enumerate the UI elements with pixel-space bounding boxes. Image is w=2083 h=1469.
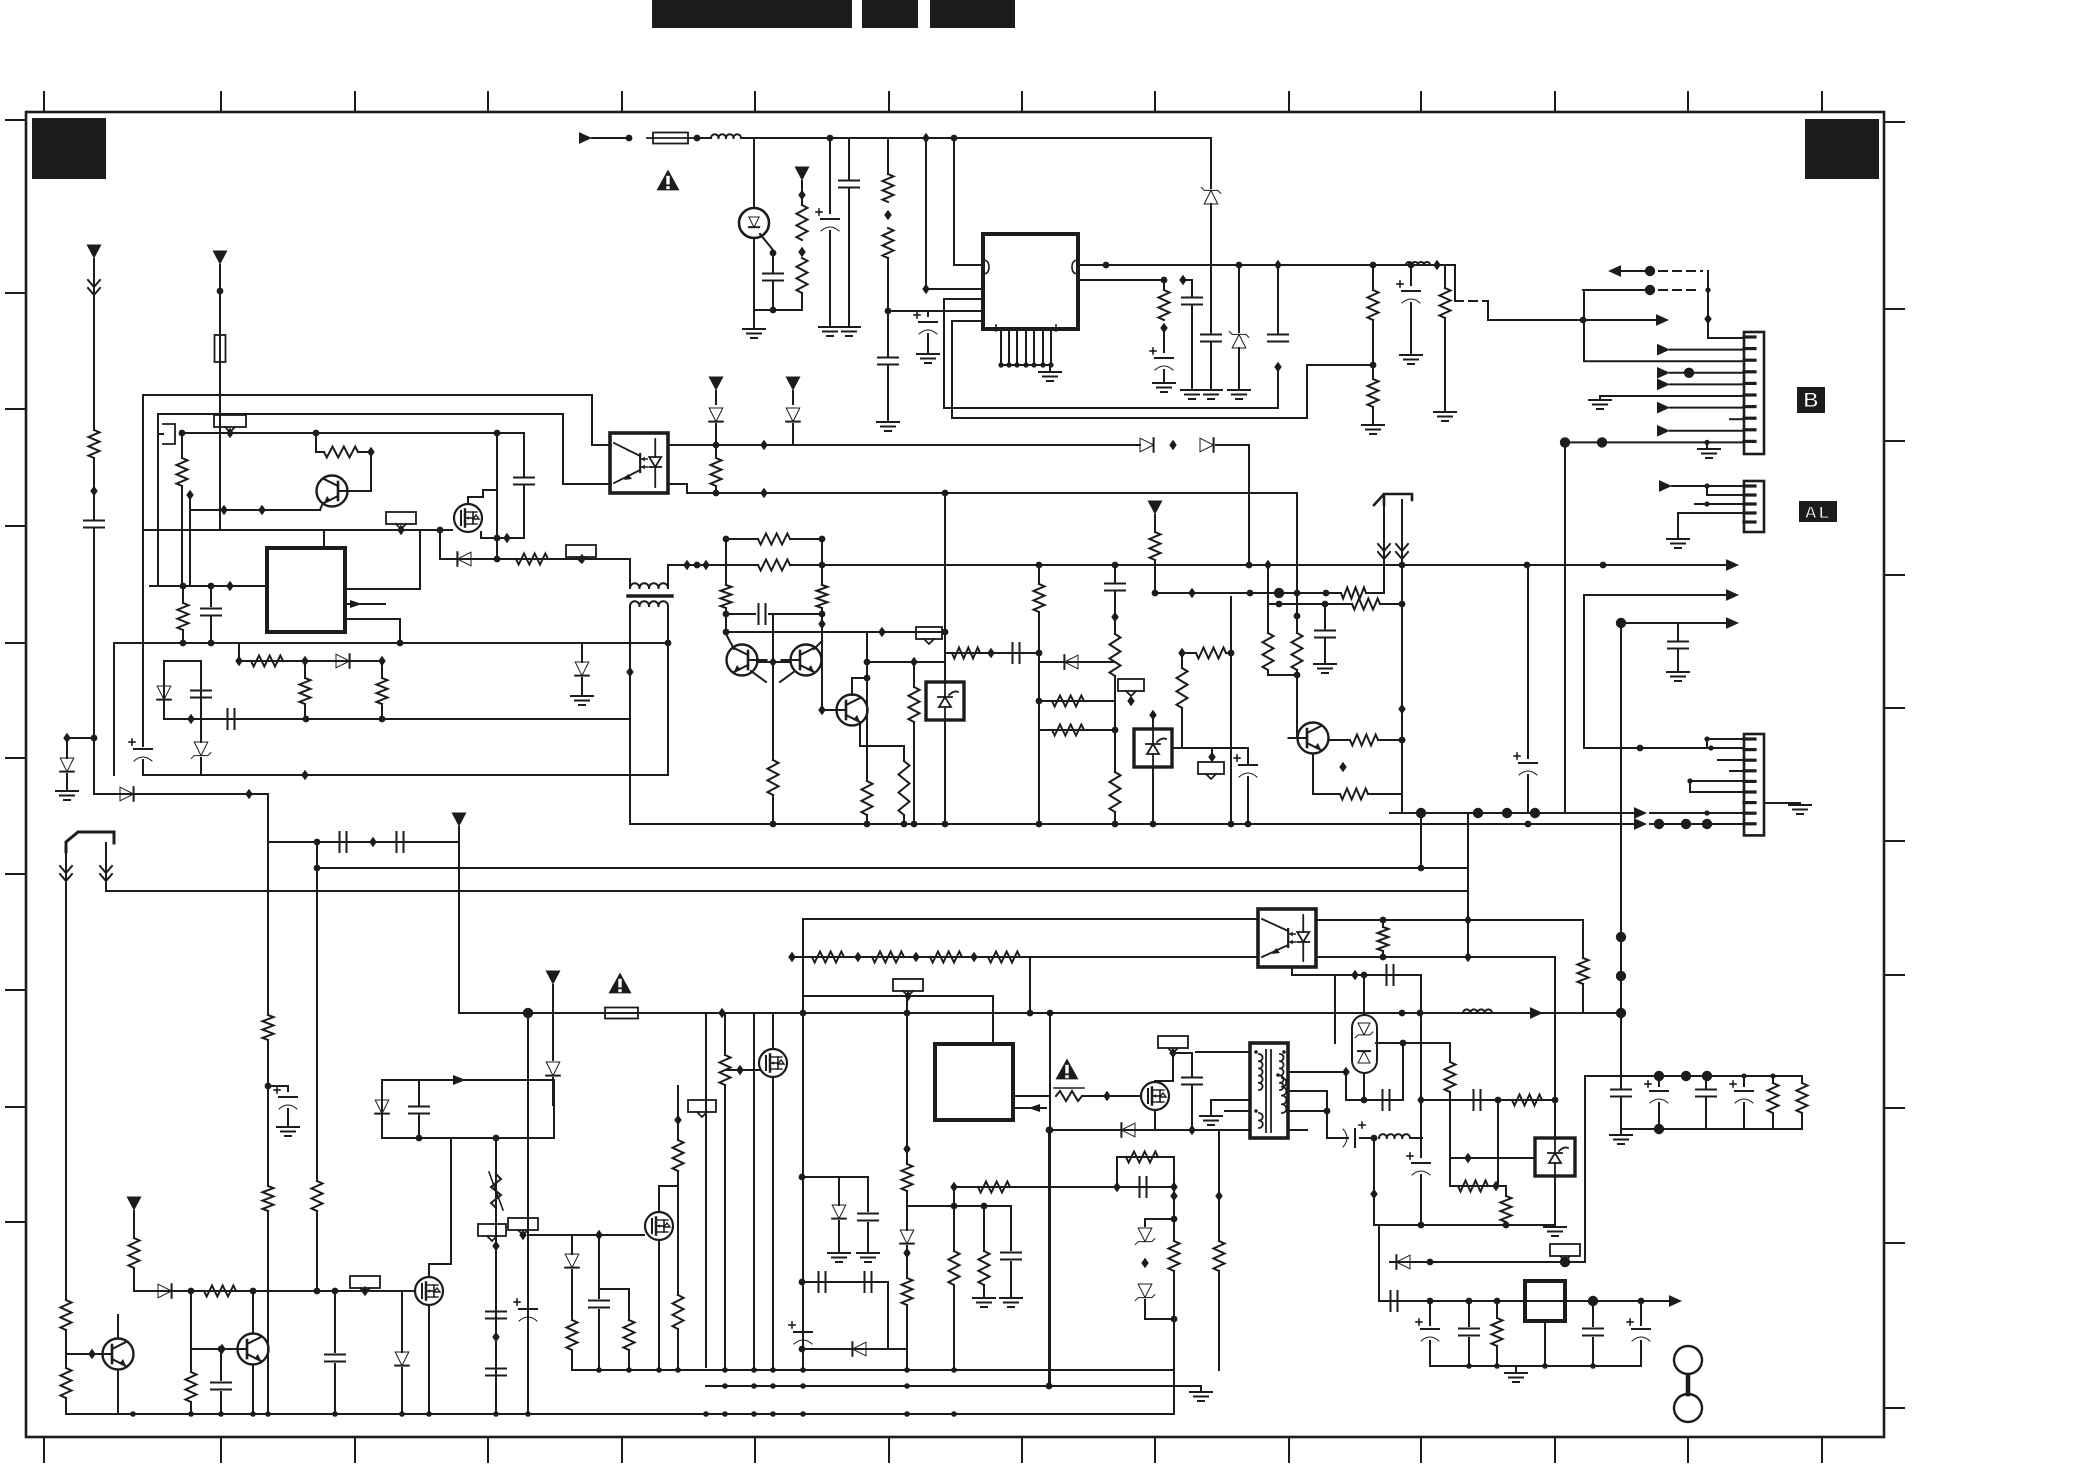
- fusible resistor R55: [1054, 1088, 1084, 1101]
- junction at 954,1370: [951, 1367, 957, 1373]
- signal arrow mains in: [579, 132, 592, 144]
- junction at 1469,1366: [1466, 1363, 1472, 1369]
- wire feedback loop 2: [952, 321, 1307, 418]
- loop: [382, 1080, 554, 1138]
- ground GND5: [1039, 372, 1061, 381]
- junction at 1640,748: [1637, 745, 1644, 752]
- junction at 1278,1075: [1276, 1073, 1280, 1077]
- junction node at 373,842: [369, 837, 376, 847]
- wire: [1583, 289, 1650, 291]
- capacitor C8: [1201, 335, 1221, 342]
- resistor R1: [797, 205, 808, 240]
- resistor R47: [673, 1140, 684, 1171]
- wire: [1211, 1099, 1250, 1101]
- wire: [358, 451, 371, 453]
- junction at 1164,280: [1161, 277, 1168, 284]
- junction at 773,1386: [770, 1383, 776, 1389]
- wire: [1218, 1130, 1220, 1241]
- supply rail symbol V2: [786, 377, 801, 391]
- resistor R5: [1159, 290, 1170, 320]
- wire: [694, 137, 711, 139]
- junction node at 954,1187: [950, 1182, 957, 1192]
- wire: [495, 1138, 497, 1414]
- wire: [1379, 1300, 1670, 1302]
- wire: [67, 737, 94, 739]
- junction node at 858,957: [854, 952, 861, 962]
- junction at 1050,1013: [1047, 1010, 1054, 1017]
- wire: [1420, 975, 1422, 1100]
- junction at 1498,1100: [1495, 1097, 1502, 1104]
- wire: [866, 632, 868, 678]
- wire: [629, 583, 631, 588]
- wire: [1706, 442, 1708, 447]
- transistor Q5: [828, 695, 868, 726]
- junction at 697,138: [694, 135, 701, 142]
- signal arrow sig: [1659, 480, 1672, 492]
- wire: [1554, 1176, 1556, 1225]
- wire: [1583, 595, 1585, 748]
- wire: [164, 660, 201, 662]
- diode D17: [375, 1100, 389, 1114]
- wire: [1690, 780, 1744, 782]
- wire: [802, 1176, 868, 1178]
- resistor R62: [1169, 1241, 1180, 1271]
- resistor R29: [1052, 725, 1084, 736]
- junction at 1744,1076: [1741, 1073, 1746, 1078]
- wire: [1288, 1071, 1346, 1073]
- wire: [117, 1370, 119, 1414]
- capacitor (electrolytic) C46: [1416, 1319, 1439, 1341]
- capacitor C27: [486, 1312, 506, 1319]
- wire: [1247, 748, 1249, 763]
- bus arrow3: [1621, 622, 1727, 624]
- wire: [801, 293, 803, 310]
- wire: [1444, 318, 1446, 410]
- wire: [906, 996, 908, 1164]
- junction at 1039,653: [1036, 650, 1043, 657]
- surge arrester N1: [1352, 1015, 1377, 1073]
- junction at 1593,1366: [1590, 1363, 1596, 1369]
- value callout LB13: [1550, 1244, 1580, 1261]
- wire: [903, 815, 905, 824]
- capacitor (electrolytic) C49: [1627, 1319, 1650, 1341]
- wire: [1429, 1301, 1431, 1325]
- wire Q3 emitter: [751, 671, 766, 682]
- wire: [1360, 1137, 1374, 1139]
- wire: [1173, 1271, 1175, 1367]
- MOSFET Q7: [759, 1049, 787, 1077]
- resistor R33: [1196, 648, 1226, 659]
- connector CN3: [1744, 734, 1764, 835]
- junction at 954,138: [951, 135, 958, 142]
- junction at 221,1349: [218, 1346, 225, 1353]
- wire: [1582, 984, 1584, 1013]
- wire: [598, 1235, 600, 1298]
- wire: [287, 1086, 289, 1091]
- capacitor C50: [1611, 1090, 1631, 1097]
- junction at 1115,730: [1112, 727, 1119, 734]
- junction at 268,1086: [265, 1083, 272, 1090]
- wire: [1324, 604, 1326, 629]
- wire: [65, 1330, 67, 1368]
- resistor R38: [1350, 735, 1378, 746]
- ground GND3: [838, 327, 860, 336]
- ground GND18: [1789, 805, 1811, 814]
- junction at 382,719: [379, 716, 386, 723]
- wire: [1346, 1099, 1403, 1101]
- capacitor C48: [1583, 1329, 1603, 1336]
- resistor R66: [1512, 1095, 1542, 1106]
- svg-text:B: B: [1803, 389, 1818, 412]
- junction node at 1131,701: [1127, 696, 1134, 706]
- ground GNDB2: [1698, 449, 1720, 458]
- wire: [1181, 708, 1183, 748]
- arrow (mains lead): [100, 866, 112, 881]
- bus arrow2: [1584, 594, 1726, 596]
- wire: [1082, 1095, 1140, 1097]
- transformer T2 box: [1250, 1043, 1288, 1138]
- junction node at 1182,653: [1178, 648, 1185, 658]
- capacitor C24: [397, 832, 404, 852]
- wire: [581, 643, 583, 662]
- junction at 1659,1076: [1654, 1071, 1664, 1081]
- junction at 629,138: [626, 135, 633, 142]
- IC U1 tab: [996, 325, 1056, 331]
- wire: [1421, 1099, 1555, 1101]
- wire: [790, 538, 822, 540]
- wire (dashed): [1659, 270, 1702, 272]
- wire opto bot: [668, 484, 1297, 593]
- value callout LB11: [893, 979, 923, 996]
- wire: [1196, 1051, 1250, 1053]
- bus gnd2: [1650, 823, 1744, 825]
- resistor R49: [567, 1320, 578, 1350]
- wire: [1200, 1386, 1202, 1390]
- junction at 1565,1262: [1560, 1257, 1570, 1267]
- junction at 802,1282: [799, 1279, 806, 1286]
- junction node at 678,1120: [674, 1115, 681, 1125]
- wire: [1564, 442, 1566, 813]
- diode D27: [1396, 1255, 1410, 1269]
- resistor R46: [186, 1372, 197, 1402]
- wire: [1730, 770, 1744, 772]
- wire: [1527, 775, 1529, 813]
- diode D4: [457, 552, 471, 566]
- resistor R25: [899, 761, 910, 815]
- wire: [599, 1288, 629, 1290]
- capacitor (electrolytic) C25: [274, 1087, 297, 1109]
- wire: [1182, 747, 1248, 749]
- junction at 802,1177: [799, 1174, 806, 1181]
- junction node at 1183,280: [1179, 275, 1186, 285]
- wire tl431 ref: [944, 493, 946, 682]
- junction node at 1164,328: [1160, 323, 1167, 333]
- wire: [1706, 739, 1708, 748]
- wire: [158, 433, 163, 435]
- ground GND11: [1362, 425, 1384, 434]
- junction at 1049,1130: [1046, 1127, 1053, 1134]
- junction at 1565,442.4: [1560, 437, 1570, 447]
- junction at 1297,675: [1294, 672, 1301, 679]
- capacitor C13: [191, 691, 211, 698]
- wire: [944, 720, 946, 824]
- ground GND1: [743, 329, 765, 338]
- IC U9 (regulator): [1525, 1281, 1565, 1321]
- wire: [866, 815, 868, 824]
- ground GND17: [1314, 664, 1336, 673]
- wire: [772, 1077, 774, 1367]
- wire: [1467, 868, 1469, 957]
- junction node at 882,632: [878, 627, 885, 637]
- junction at 1250,593: [1247, 590, 1254, 597]
- bus: [706, 1385, 1201, 1387]
- resistor R20c: [758, 534, 790, 545]
- ground GND23: [828, 1253, 850, 1262]
- fuse F2: [215, 329, 226, 368]
- wire: [1450, 1157, 1535, 1159]
- signal arrow s: [1634, 807, 1647, 819]
- wire: [838, 1221, 840, 1251]
- wire: [726, 538, 758, 540]
- junction at 1535,813: [1530, 808, 1540, 818]
- diode D11: [1140, 438, 1154, 452]
- junction at 1039,701: [1036, 698, 1043, 705]
- junction node at 1145,1263: [1141, 1258, 1148, 1268]
- connector CN1 (B): [1744, 332, 1764, 454]
- junction at 496,1414: [493, 1411, 499, 1417]
- resistor R27b: [1034, 584, 1045, 612]
- junction at 1279,593: [1274, 588, 1284, 598]
- wire: [1049, 365, 1051, 370]
- resistor R36b: [1341, 588, 1366, 599]
- wire: [1145, 1300, 1174, 1319]
- junction node at 802,195: [798, 190, 805, 200]
- wire: [1496, 1346, 1498, 1366]
- ground GND4: [877, 422, 899, 431]
- capacitor (electrolytic) C5: [914, 312, 937, 334]
- junction node at 599,1235: [595, 1230, 602, 1240]
- bus: [106, 890, 1468, 892]
- wire: [1599, 396, 1601, 398]
- junction at 1707,486: [1704, 483, 1709, 488]
- wire: [753, 238, 755, 327]
- wire: [1267, 670, 1269, 675]
- MOSFET Q8: [415, 1277, 443, 1305]
- resistor R56: [902, 1164, 913, 1191]
- signal arrow sig: [1657, 379, 1670, 391]
- capacitor C20b: [1105, 584, 1125, 591]
- junction node at 773,662: [769, 657, 776, 667]
- junction at 726,539: [723, 536, 730, 543]
- junction at 1711,748: [1708, 745, 1713, 750]
- wire: [1670, 430, 1744, 432]
- junction node at 1268,565: [1264, 560, 1271, 570]
- wire: [181, 433, 183, 458]
- capacitor C30: [325, 1355, 345, 1362]
- signal arrow to B: [1656, 314, 1669, 326]
- junction at 725,1414: [722, 1411, 728, 1417]
- wire: [1114, 591, 1116, 634]
- wire: [867, 1223, 869, 1251]
- wire: [1247, 777, 1249, 824]
- diode D18: [158, 1284, 172, 1298]
- wire: [315, 433, 317, 452]
- wire: [887, 258, 889, 311]
- wire: [1449, 1158, 1451, 1186]
- capacitor (electrolytic) C2: [816, 209, 839, 231]
- wire loop left: [142, 395, 144, 746]
- wire: [1373, 1138, 1375, 1225]
- junction node at 764,445: [760, 440, 767, 450]
- wire: [772, 795, 774, 824]
- wire: [715, 391, 717, 404]
- capacitor (electrolytic) C41: [1343, 1122, 1365, 1147]
- junction at 1650,290: [1645, 285, 1655, 295]
- junction node at 1468,957: [1464, 952, 1471, 962]
- resistor R53: [930, 952, 962, 963]
- wire: [1378, 739, 1402, 741]
- wire: [133, 1211, 135, 1238]
- junction at 1034,365: [1031, 362, 1036, 367]
- wire: [334, 1291, 336, 1352]
- transistor Q10: [229, 1334, 269, 1365]
- wire loop top: [143, 395, 611, 445]
- wire: [705, 1013, 707, 1367]
- capacitor C3: [839, 181, 859, 188]
- wire loop bottom: [143, 774, 668, 776]
- wire: [715, 445, 717, 458]
- junction node at 222,1349: [218, 1344, 225, 1354]
- wire: [320, 505, 322, 510]
- junction node at 1402,709: [1398, 704, 1405, 714]
- junction at 1297,616: [1294, 613, 1301, 620]
- junction at 1430,1301: [1427, 1298, 1434, 1305]
- wire conn feed: [1584, 747, 1744, 749]
- junction at 221,1414: [218, 1411, 224, 1417]
- junction at 1373,365: [1370, 362, 1377, 369]
- wire: [1048, 1130, 1050, 1386]
- junction at 1402,740: [1399, 737, 1406, 744]
- wire: [66, 774, 68, 789]
- wire: [287, 1109, 289, 1125]
- junction node at 1107,1096: [1103, 1091, 1110, 1101]
- junction at 1402,565: [1399, 562, 1406, 569]
- junction at 1231,653: [1228, 650, 1235, 657]
- wire AC rail: [741, 137, 1211, 139]
- junction at 830,138: [827, 135, 834, 142]
- wire: [1450, 1185, 1506, 1187]
- warning triangle: [1056, 1059, 1079, 1080]
- wire: [1621, 1128, 1802, 1130]
- capacitor (electrolytic) C53: [1730, 1081, 1753, 1103]
- wire: [1565, 441, 1744, 443]
- junction at 773,310: [770, 307, 777, 314]
- wire: [821, 539, 823, 585]
- IC U7 (LLC controller): [935, 1044, 1013, 1120]
- capacitor (electrolytic) C6: [1150, 348, 1173, 370]
- wire: [1291, 967, 1293, 975]
- junction at 400,643: [397, 640, 404, 647]
- bus L4: [1154, 592, 1341, 594]
- signal arrow sig: [1657, 367, 1670, 379]
- junction at 954,1206: [951, 1203, 958, 1210]
- diode D12: [1200, 438, 1214, 452]
- wire base: [757, 661, 790, 663]
- junction at 945,824: [942, 821, 949, 828]
- junction node at 496,1246: [492, 1241, 499, 1251]
- junction at 419,1138: [416, 1135, 423, 1142]
- junction node at 1708,319: [1704, 314, 1711, 324]
- wire: [210, 586, 212, 606]
- junction at 1155,593: [1152, 590, 1159, 597]
- junction at 1153,824: [1150, 821, 1157, 828]
- wire: [1078, 279, 1164, 281]
- wire: [906, 1246, 908, 1278]
- wire: [1718, 759, 1744, 761]
- junction at 1256,1111: [1254, 1109, 1258, 1113]
- junction node at 822,710: [818, 705, 825, 715]
- wire: [1163, 370, 1165, 381]
- wire src: [481, 532, 524, 538]
- wire: [1372, 407, 1374, 423]
- wire: [772, 281, 774, 310]
- wire: [953, 1187, 955, 1251]
- junction node at 916,957: [912, 952, 919, 962]
- junction at 182,433: [179, 430, 186, 437]
- wire: [1410, 265, 1412, 285]
- wire: [887, 1282, 889, 1349]
- junction node at 687,565: [683, 560, 690, 570]
- junction at 183,643: [180, 640, 187, 647]
- junction at 1421,1225: [1418, 1222, 1425, 1229]
- wire: [754, 309, 802, 311]
- capacitor C1: [763, 274, 783, 281]
- junction at 429,1414: [426, 1411, 432, 1417]
- wire: [1449, 1092, 1451, 1158]
- junction at 1707,442.4: [1704, 440, 1709, 445]
- junction at 725,1370: [722, 1367, 728, 1373]
- junction at 220,291: [217, 288, 224, 295]
- value callout LB8: [350, 1276, 380, 1293]
- junction at 1583,320: [1580, 317, 1587, 324]
- IC U1 pin mark: [1072, 260, 1078, 274]
- wire: [1173, 1367, 1175, 1414]
- wire gate bus: [158, 413, 563, 415]
- signal arrow out: [1669, 1295, 1682, 1307]
- value callout LB12: [1158, 1036, 1188, 1053]
- wire: [1678, 512, 1744, 514]
- wire: [906, 1305, 908, 1370]
- resistor R42: [61, 1368, 72, 1398]
- wire: [1584, 1076, 1586, 1262]
- ground GND26: [1544, 1227, 1566, 1236]
- wire: [93, 259, 95, 430]
- transformer T2 core: [1266, 1050, 1271, 1132]
- diode N1a: [1355, 1023, 1373, 1038]
- junction at 1621,1013: [1616, 1008, 1626, 1018]
- wire: [1515, 1366, 1517, 1371]
- wire: [1345, 1072, 1347, 1100]
- wire: [726, 631, 945, 633]
- junction node at 1437,265: [1433, 260, 1440, 270]
- wire: [1238, 265, 1240, 332]
- wire: [1038, 565, 1040, 584]
- wire: [1670, 407, 1744, 409]
- junction at 907,1414: [904, 1411, 910, 1417]
- page label block (top-right): [1805, 119, 1879, 179]
- warning triangle: [609, 973, 632, 994]
- junction at 1403,1043: [1400, 1040, 1407, 1047]
